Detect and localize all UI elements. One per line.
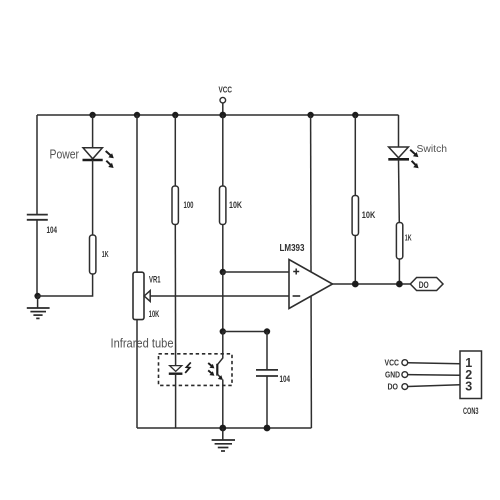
wire C2 node down to C2 [266, 332, 268, 370]
wire node down into phototransistor collector [217, 332, 223, 365]
ground GND2 [212, 428, 235, 451]
terminal circle VCC pin [402, 360, 408, 366]
DO output flag [410, 278, 443, 291]
svg-text:3: 3 [465, 379, 472, 393]
node C2 top junction [264, 328, 270, 334]
wire R5 to output node [398, 259, 400, 284]
terminal circle GND pin [402, 372, 408, 378]
resistor R2 10K [220, 186, 226, 225]
wire rail to R1 [174, 115, 176, 186]
wire LED D1 to R3 [92, 160, 94, 235]
terminal circle DO pin [402, 384, 408, 390]
wire VCC pin to CON3 [408, 363, 460, 364]
svg-text:104: 104 [280, 374, 291, 384]
wire R2 to plus node [222, 225, 224, 273]
node rail junction VR1 branch [134, 112, 140, 118]
svg-text:Power: Power [50, 147, 80, 162]
capacitor C1 104 [27, 215, 48, 220]
potentiometer VR1 body [133, 272, 144, 319]
wire LED D2 to R5 [398, 159, 401, 222]
wire VCC terminal to rail [222, 103, 224, 115]
node plus input junction [220, 269, 226, 275]
svg-text:10K: 10K [229, 200, 242, 210]
node ground junction left [34, 293, 40, 299]
node rail junction VCC / R2 [219, 112, 226, 119]
resistor R4 10K [352, 196, 358, 236]
node bottom rail ground junction [219, 425, 226, 432]
wire R1 to IR LED [174, 225, 176, 366]
resistor R1 100 [172, 186, 178, 225]
svg-text:CON3: CON3 [463, 406, 479, 417]
svg-text:LM393: LM393 [280, 242, 305, 254]
node rail junction R4 branch [352, 112, 358, 118]
dashed box infrared tube [159, 354, 233, 386]
op-amp plus sign [293, 269, 299, 275]
svg-text:VCC: VCC [219, 85, 233, 95]
wire DO pin to CON3 [408, 385, 460, 387]
connector CON3 box [460, 351, 482, 399]
wire C1 bottom to ground node [36, 220, 38, 296]
wire R4 to output node [354, 236, 356, 285]
node rail junction op-amp supply [307, 112, 313, 118]
resistor R3 1K [90, 235, 96, 274]
node rail junction R1 branch [172, 112, 178, 118]
LED D1 Power [83, 148, 114, 168]
svg-text:10K: 10K [149, 309, 160, 319]
IR LED emitter diode [169, 362, 191, 373]
wire bottom ground rail [137, 427, 311, 429]
wire plus node down to C2 node [222, 272, 224, 332]
wire VR1 wiper to op-amp inverting input [150, 295, 289, 297]
wire rail corner down to LED D2 [398, 115, 400, 147]
svg-text:1K: 1K [102, 249, 109, 259]
wire VR1 bottom to bottom rail [136, 320, 138, 428]
svg-text:VCC: VCC [385, 359, 400, 368]
wire rail to VR1 top [136, 115, 138, 272]
ground GND1 [27, 296, 50, 318]
svg-text:GND: GND [385, 371, 400, 380]
node output junction R4 [352, 281, 359, 288]
svg-text:VR1: VR1 [149, 274, 161, 285]
svg-text:1K: 1K [405, 233, 412, 243]
node rail junction Power branch [89, 112, 95, 118]
wire IR LED to bottom rail [175, 374, 177, 428]
resistor R5 1K [396, 223, 402, 260]
wire GND pin to CON3 [408, 374, 460, 377]
svg-text:DO: DO [419, 280, 429, 291]
wire op-amp output [333, 283, 411, 285]
wire op-amp supply rail through to bottom rail [310, 115, 313, 428]
svg-text:Switch: Switch [417, 144, 448, 155]
node output junction R5 / DO [396, 281, 403, 288]
svg-text:100: 100 [184, 200, 194, 210]
svg-text:10K: 10K [362, 210, 376, 220]
VR1 wiper arrow [144, 291, 150, 302]
phototransistor Q1 [208, 363, 223, 380]
wire top VCC rail [37, 114, 399, 116]
capacitor C2 104 [256, 370, 278, 376]
wire ground node to R3 bottom [38, 274, 93, 296]
op-amp minus sign [293, 295, 301, 297]
wire junction to C2 [223, 331, 267, 333]
LED D2 Switch [388, 147, 418, 168]
wire rail to R2 [222, 115, 224, 186]
svg-text:104: 104 [47, 225, 58, 235]
wire phototransistor emitter to bottom rail [222, 380, 224, 429]
op-amp U1 LM393 [289, 260, 333, 309]
node phototransistor / C2 junction [220, 328, 226, 334]
wire left edge down from rail to C1 [36, 115, 38, 214]
node bottom rail C2 junction [264, 425, 271, 432]
wire rail to R4 [354, 115, 356, 196]
svg-text:Infrared tube: Infrared tube [111, 337, 174, 351]
svg-text:DO: DO [388, 383, 399, 392]
wire plus node to op-amp non-inverting input [223, 271, 289, 273]
terminal VCC circle [220, 97, 226, 103]
wire C2 to bottom rail [266, 376, 268, 428]
wire rail to LED D1 [92, 115, 94, 148]
